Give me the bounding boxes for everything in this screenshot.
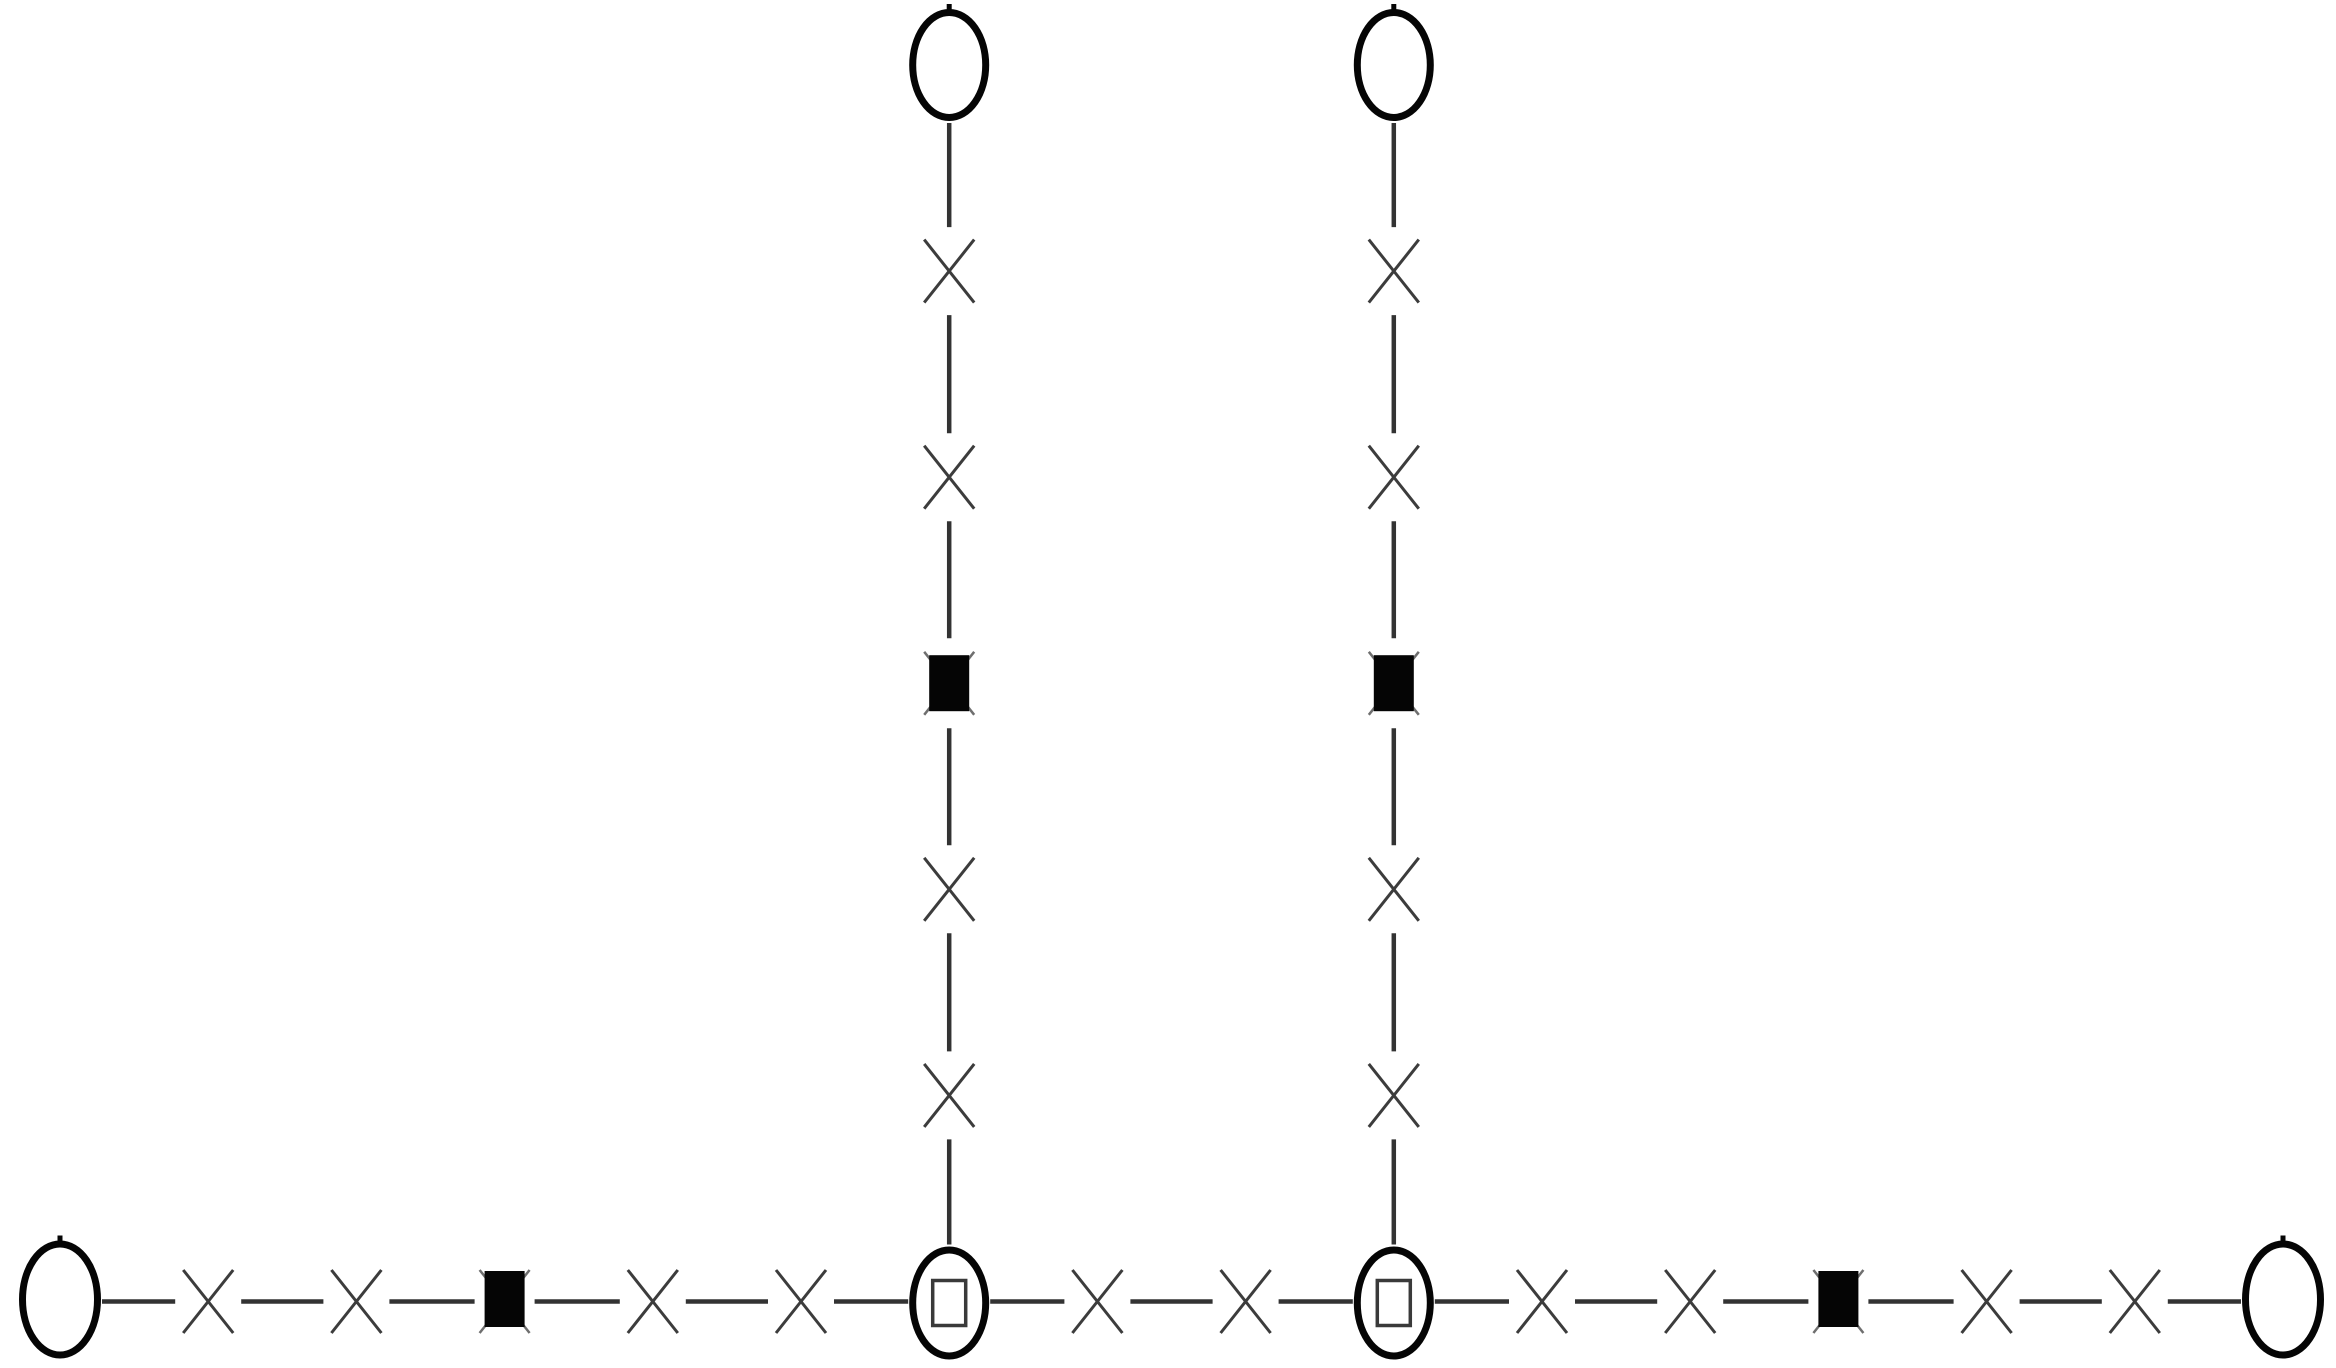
wire bottom segment 5 — [686, 1299, 768, 1304]
wire bottom segment 14 — [2020, 1299, 2102, 1304]
breaker B1 (closed, drawn over switch cross) — [480, 1270, 530, 1333]
switch S6 — [1221, 1270, 1271, 1333]
wire feeder 1 segment 6 — [947, 1139, 952, 1244]
wire bottom segment 7 — [990, 1299, 1064, 1304]
breaker B3 (closed, drawn over switch cross) — [924, 652, 974, 715]
wire feeder 1 segment 5 — [947, 933, 952, 1051]
wire bottom segment 2 — [241, 1299, 323, 1304]
wire feeder 2 segment 4 — [1392, 728, 1397, 845]
node N1 (bus with load indicator) — [913, 1250, 986, 1356]
switch S2 — [331, 1270, 381, 1333]
source G4 — [1357, 4, 1430, 118]
switch S13 — [924, 858, 974, 921]
wire feeder 1 segment 4 — [947, 728, 952, 845]
switch S5 — [1072, 1270, 1122, 1333]
wire feeder 1 segment 3 — [947, 521, 952, 638]
switch S12 — [924, 446, 974, 509]
wire bottom segment 3 — [389, 1299, 474, 1304]
wire bottom segment 9 — [1279, 1299, 1353, 1304]
wire bottom segment 13 — [1868, 1299, 1953, 1304]
wire bottom segment 15 — [2168, 1299, 2241, 1304]
switch S18 — [1369, 1064, 1419, 1127]
wire bottom segment 11 — [1575, 1299, 1657, 1304]
source G1 — [23, 1236, 98, 1356]
wire bottom segment 8 — [1130, 1299, 1212, 1304]
switch S4 — [776, 1270, 826, 1333]
wire bottom segment 6 — [834, 1299, 908, 1304]
wire feeder 1 segment 2 — [947, 315, 952, 433]
node N2 (bus with load indicator) — [1357, 1250, 1430, 1356]
switch S9 — [1962, 1270, 2012, 1333]
wire bottom segment 12 — [1723, 1299, 1808, 1304]
wire feeder 2 segment 1 — [1392, 123, 1397, 227]
switch S17 — [1369, 858, 1419, 921]
source G3 — [913, 4, 986, 118]
wire feeder 2 segment 3 — [1392, 521, 1397, 638]
wire bottom segment 4 — [535, 1299, 620, 1304]
switch S16 — [1369, 446, 1419, 509]
switch S11 — [924, 240, 974, 303]
switch S8 — [1665, 1270, 1715, 1333]
switch S15 — [1369, 240, 1419, 303]
wire feeder 1 segment 1 — [947, 123, 952, 227]
switch S7 — [1517, 1270, 1567, 1333]
switch S14 — [924, 1064, 974, 1127]
switch S3 — [628, 1270, 678, 1333]
wire feeder 2 segment 5 — [1392, 933, 1397, 1051]
switch S1 — [183, 1270, 233, 1333]
source G2 — [2246, 1236, 2321, 1356]
wire feeder 2 segment 2 — [1392, 315, 1397, 433]
wire bottom segment 10 — [1435, 1299, 1509, 1304]
wire feeder 2 segment 6 — [1392, 1139, 1397, 1244]
wire bottom segment 1 — [102, 1299, 175, 1304]
breaker B2 (closed, drawn over switch cross) — [1813, 1270, 1863, 1333]
breaker B4 (closed, drawn over switch cross) — [1369, 652, 1419, 715]
switch S10 — [2110, 1270, 2160, 1333]
